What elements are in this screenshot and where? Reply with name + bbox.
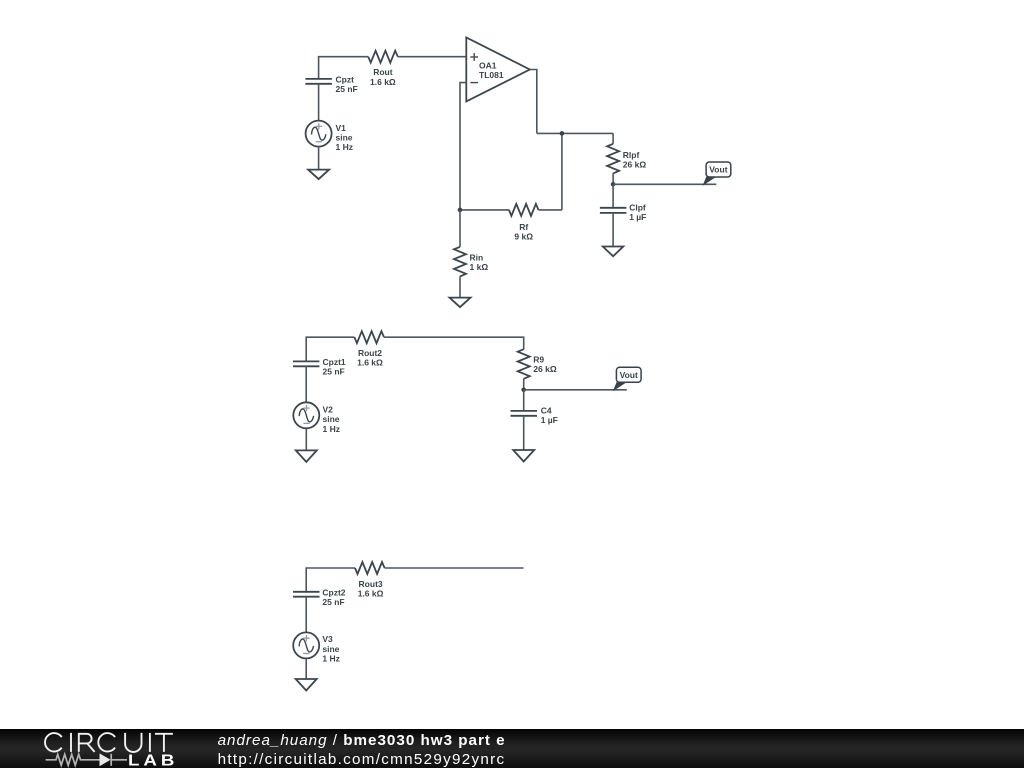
wire to Rin — [459, 210, 461, 247]
resistor Rin — [454, 247, 466, 277]
wire V1 to ground — [318, 147, 320, 170]
wire node to Vout — [524, 389, 627, 391]
logo diode triangle — [100, 753, 111, 766]
wire Rf left lead — [460, 209, 509, 211]
wire Rlpf to node — [612, 173, 614, 184]
svg-text:andrea_huang / bme3030 hw3 par: andrea_huang / bme3030 hw3 part e — [218, 732, 506, 749]
wire Cpzt top to Rout — [319, 57, 369, 79]
svg-text:sine: sine — [323, 414, 340, 424]
wire op-amp inverting input — [460, 83, 466, 210]
svg-text:http://circuitlab.com/cmn529y9: http://circuitlab.com/cmn529y92ynrc — [218, 751, 506, 768]
wire node to Clpf — [612, 184, 614, 208]
svg-text:Cpzt: Cpzt — [336, 75, 355, 85]
svg-text:Rlpf: Rlpf — [623, 150, 640, 160]
wire C4 to ground — [523, 416, 525, 450]
svg-text:Vout: Vout — [709, 165, 727, 175]
svg-text:1 Hz: 1 Hz — [336, 142, 353, 152]
svg-text:25 nF: 25 nF — [336, 84, 358, 94]
resistor Rout2 — [354, 331, 384, 343]
svg-text:1 Hz: 1 Hz — [322, 654, 339, 664]
svg-text:25 nF: 25 nF — [322, 597, 344, 607]
capacitor Cpzt1 — [293, 361, 320, 366]
capacitor Cpzt2 — [293, 592, 320, 597]
wire Rf right lead — [539, 209, 562, 211]
svg-text:9 kΩ: 9 kΩ — [514, 232, 533, 242]
svg-text:sine: sine — [322, 644, 339, 654]
op-amp OA1 — [466, 38, 530, 102]
wire Rin to ground — [459, 276, 461, 297]
resistor Rout — [368, 51, 398, 63]
wire Cpzt2 to Rout3 — [306, 568, 355, 592]
svg-text:1 µF: 1 µF — [629, 212, 646, 222]
svg-text:Rout: Rout — [373, 67, 393, 77]
capacitor Cpzt — [305, 79, 332, 84]
capacitor Clpf — [600, 208, 627, 213]
junction feedback node — [560, 131, 565, 136]
wire Cpzt to V1 — [318, 84, 320, 121]
wire V3 to ground — [305, 658, 307, 679]
svg-text:1.6 kΩ: 1.6 kΩ — [357, 358, 383, 368]
voltage source V1 — [306, 121, 332, 147]
resistor Rf — [509, 204, 539, 216]
wire Cpzt1 to Rout2 — [306, 337, 354, 361]
ground — [296, 450, 317, 462]
svg-text:Cpzt2: Cpzt2 — [322, 587, 345, 597]
svg-text:Rin: Rin — [470, 253, 484, 263]
wire feedback vertical — [561, 133, 563, 210]
svg-text:1 kΩ: 1 kΩ — [470, 262, 489, 272]
wire output to Rlpf — [537, 132, 613, 134]
svg-text:1.6 kΩ: 1.6 kΩ — [358, 589, 384, 599]
svg-text:TL081: TL081 — [479, 70, 504, 80]
svg-text:OA1: OA1 — [479, 61, 497, 71]
svg-text:V3: V3 — [322, 634, 333, 644]
ground — [450, 298, 471, 308]
wire Cpzt2 to V3 — [305, 597, 307, 633]
wire Clpf to ground — [612, 213, 614, 247]
voltage source V3 — [293, 632, 319, 658]
resistor Rlpf — [607, 144, 619, 174]
wire R9 to node — [523, 379, 525, 390]
node Vout flag — [703, 162, 731, 186]
junction middle output node — [521, 388, 526, 393]
wire node to C4 — [523, 390, 525, 411]
capacitor C4 — [511, 411, 538, 416]
wire to Rlpf top — [612, 133, 614, 143]
svg-text:C4: C4 — [541, 406, 552, 416]
logo resistor-diode glyph — [46, 754, 127, 766]
wire op-amp output — [530, 70, 537, 134]
CircuitLab logo wordmark CIRCUIT — [45, 733, 173, 752]
wire V2 to ground — [305, 428, 307, 450]
ground — [513, 450, 534, 462]
svg-text:sine: sine — [336, 133, 353, 143]
wire Cpzt1 to V2 — [305, 366, 307, 402]
voltage source V2 — [293, 402, 319, 428]
ground — [296, 679, 317, 691]
svg-text:Vout: Vout — [620, 370, 638, 380]
svg-text:1 µF: 1 µF — [541, 415, 558, 425]
svg-text:Rout2: Rout2 — [358, 348, 382, 358]
svg-text:LAB: LAB — [128, 751, 178, 768]
svg-text:25 nF: 25 nF — [323, 367, 345, 377]
resistor Rout3 — [355, 562, 385, 574]
ground — [308, 170, 329, 180]
wire Rout3 to open end — [385, 567, 524, 569]
svg-text:Cpzt1: Cpzt1 — [323, 357, 346, 367]
svg-text:1 Hz: 1 Hz — [323, 424, 340, 434]
junction inverting node — [458, 208, 463, 213]
svg-text:26 kΩ: 26 kΩ — [623, 160, 647, 170]
svg-text:R9: R9 — [533, 354, 544, 364]
svg-text:V1: V1 — [336, 123, 347, 133]
svg-text:Rf: Rf — [519, 222, 528, 232]
resistor R9 — [518, 349, 530, 379]
junction output node — [611, 182, 616, 187]
node Vout flag (middle) — [613, 367, 641, 391]
svg-text:V2: V2 — [323, 405, 334, 415]
svg-text:Rout3: Rout3 — [359, 579, 383, 589]
wire node to Vout — [613, 183, 716, 185]
wire Rout to op-amp + input — [398, 56, 467, 58]
svg-text:1.6 kΩ: 1.6 kΩ — [370, 77, 396, 87]
wire Rout2 to R9 — [384, 337, 524, 349]
svg-text:Clpf: Clpf — [629, 202, 646, 212]
svg-text:26 kΩ: 26 kΩ — [533, 364, 557, 374]
ground — [603, 247, 624, 257]
